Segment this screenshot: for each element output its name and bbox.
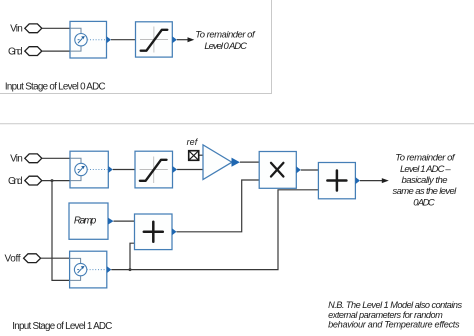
svg-text:0 ADC: 0 ADC — [413, 197, 435, 208]
svg-text:Level 0 ADC: Level 0 ADC — [204, 41, 247, 52]
svg-text:To remainder of: To remainder of — [195, 30, 256, 41]
svg-text:Level 1 ADC –: Level 1 ADC – — [400, 164, 451, 175]
svg-text:behaviour and Temperature effe: behaviour and Temperature effects — [328, 320, 460, 330]
svg-text:external parameters for random: external parameters for random — [328, 310, 443, 320]
svg-text:basically the: basically the — [402, 175, 448, 186]
svg-text:Gnd: Gnd — [8, 46, 23, 57]
svg-text:Input Stage of Level 1 ADC: Input Stage of Level 1 ADC — [12, 321, 112, 332]
svg-text:To remainder of: To remainder of — [395, 153, 456, 164]
svg-text:N.B. The Level 1 Model also co: N.B. The Level 1 Model also contains — [328, 300, 462, 310]
svg-text:Input Stage of Level 0 ADC: Input Stage of Level 0 ADC — [5, 82, 106, 93]
svg-text:Gnd: Gnd — [8, 176, 23, 187]
svg-text:ref: ref — [187, 137, 199, 147]
svg-text:same as the level: same as the level — [393, 186, 458, 197]
svg-text:Vin: Vin — [10, 153, 23, 164]
svg-text:Vin: Vin — [10, 23, 23, 34]
svg-text:Voff: Voff — [5, 253, 21, 264]
svg-text:Ramp: Ramp — [74, 216, 97, 227]
